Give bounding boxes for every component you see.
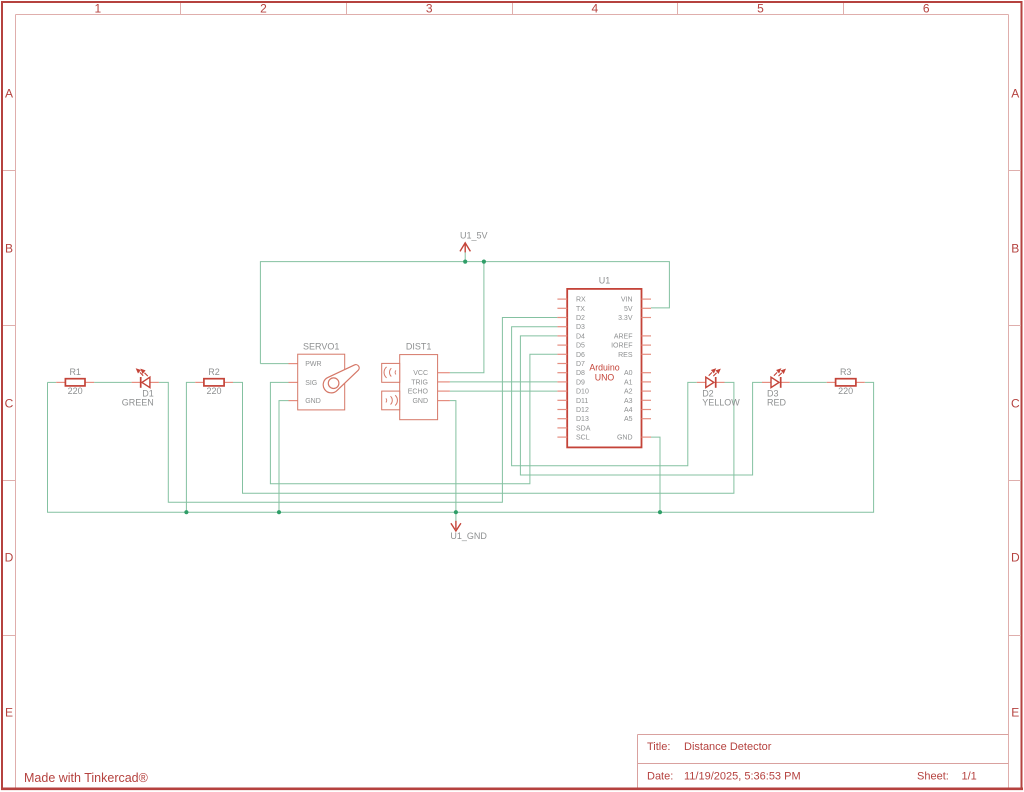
resistor R2 [204, 367, 224, 396]
svg-text:U1_GND: U1_GND [450, 531, 487, 541]
LED D2 YELLOW [702, 369, 740, 408]
svg-text:AREF: AREF [614, 333, 633, 340]
wire U1 D6 to servo SIG [270, 354, 557, 483]
svg-text:D9: D9 [576, 379, 585, 386]
pin stub LED D2 right [716, 381, 725, 383]
svg-text:U1_5V: U1_5V [460, 230, 488, 240]
pin stub R3 left [827, 381, 836, 383]
svg-text:A1: A1 [624, 379, 633, 386]
DIST1 transmitter box [382, 363, 400, 382]
svg-text:SCL: SCL [576, 435, 590, 442]
pin stub R1 right [85, 381, 94, 383]
wire R2 to LED D2 [233, 382, 734, 493]
svg-text:Title:: Title: [647, 741, 670, 753]
wire GND bus to R1 [48, 381, 57, 383]
node GND symbol junction [454, 510, 458, 514]
svg-text:TRIG: TRIG [411, 379, 428, 386]
svg-text:RED: RED [767, 398, 787, 408]
Arduino U1 [567, 275, 641, 447]
wire LED D3 to R3 [790, 381, 827, 383]
pin stub R2 right [224, 381, 233, 383]
svg-text:RX: RX [576, 297, 586, 304]
pin stub LED D2 left [697, 381, 706, 383]
svg-text:A: A [1011, 86, 1019, 100]
node 5V arrow junction [463, 260, 467, 264]
svg-text:GREEN: GREEN [122, 398, 154, 408]
svg-text:Distance Detector: Distance Detector [684, 741, 772, 753]
ultrasonic sensor DIST1 [382, 342, 438, 420]
svg-text:D8: D8 [576, 370, 585, 377]
svg-text:E: E [1011, 705, 1019, 719]
svg-text:D4: D4 [576, 333, 585, 340]
LED D3 RED [767, 369, 787, 408]
resistor R3 [836, 367, 856, 396]
pin stub DIST TRIG [438, 381, 450, 383]
svg-text:Sheet:: Sheet: [917, 771, 949, 783]
svg-text:2: 2 [260, 2, 267, 16]
svg-text:3.3V: 3.3V [618, 315, 633, 322]
U1 left pin labels [576, 297, 591, 442]
svg-text:R1: R1 [69, 367, 81, 377]
svg-text:5: 5 [757, 2, 764, 16]
svg-text:C: C [1011, 396, 1020, 410]
svg-text:D7: D7 [576, 361, 585, 368]
svg-text:Made with Tinkercad®: Made with Tinkercad® [24, 771, 149, 785]
svg-text:D2: D2 [576, 315, 585, 322]
wire servo GND to GND bus [279, 401, 289, 513]
power symbol U1_5V [460, 230, 488, 252]
svg-text:6: 6 [923, 2, 930, 16]
svg-text:VCC: VCC [413, 370, 428, 377]
wire U1 D3 to LED D2 [512, 327, 697, 466]
svg-text:YELLOW: YELLOW [702, 398, 740, 408]
pin stub LED D3 right [781, 381, 790, 383]
svg-text:D: D [5, 550, 14, 564]
svg-text:220: 220 [206, 386, 221, 396]
U1 right pin stubs [642, 299, 652, 437]
title block text [647, 741, 977, 782]
svg-text:A0: A0 [624, 370, 633, 377]
svg-text:1: 1 [94, 2, 101, 16]
node 5V VCC junction [482, 260, 486, 264]
wire 5V bus to DIST VCC [450, 262, 484, 373]
svg-text:U1: U1 [599, 275, 611, 285]
svg-text:220: 220 [838, 386, 853, 396]
wire DIST TRIG to U1 D9 [450, 381, 558, 383]
wire 5V bus to servo PWR [260, 363, 288, 365]
svg-text:R3: R3 [840, 367, 852, 377]
svg-text:GND: GND [305, 398, 321, 405]
pin stub R3 right [856, 381, 865, 383]
svg-text:3: 3 [426, 2, 433, 16]
wire 5V bus [260, 262, 669, 364]
svg-text:A: A [5, 86, 13, 100]
resistor R1 [65, 367, 85, 396]
node GND U1 junction [658, 510, 662, 514]
U1 left pin stubs [557, 299, 567, 437]
svg-text:B: B [5, 241, 13, 255]
svg-text:SERVO1: SERVO1 [303, 342, 339, 352]
svg-text:D6: D6 [576, 352, 585, 359]
svg-text:Arduino: Arduino [589, 363, 619, 373]
frame row letters [5, 86, 1020, 719]
LED D1 GREEN1 [122, 369, 154, 408]
title block [638, 735, 1009, 788]
pin stub D1 right [150, 381, 159, 383]
svg-text:4: 4 [591, 2, 598, 16]
pin stub LED D3 left [762, 381, 771, 383]
frame column ticks [181, 3, 844, 15]
svg-text:ECHO: ECHO [408, 389, 429, 396]
svg-text:SIG: SIG [305, 380, 317, 387]
svg-text:11/19/2025, 5:36:53 PM: 11/19/2025, 5:36:53 PM [684, 771, 801, 783]
wire U1 D4 to LED D3 [520, 336, 762, 475]
pin stub R1 left [56, 381, 65, 383]
wire D1 to U1 D2 [159, 318, 558, 503]
svg-text:5V: 5V [624, 306, 633, 313]
wire R1 to D1 [94, 381, 132, 383]
svg-text:B: B [1011, 241, 1019, 255]
wire DIST ECHO to U1 D10 [450, 390, 558, 392]
U1 right pin labels [611, 297, 633, 442]
svg-text:R2: R2 [208, 367, 220, 377]
svg-text:E: E [5, 705, 13, 719]
servo SERVO1 [298, 342, 359, 410]
pin stub servo SIG [289, 381, 298, 383]
svg-text:A2: A2 [624, 389, 633, 396]
svg-text:Date:: Date: [647, 771, 673, 783]
svg-text:D10: D10 [576, 389, 589, 396]
svg-text:RES: RES [618, 352, 633, 359]
wire GND bus [48, 382, 874, 512]
node GND servo junction [277, 510, 281, 514]
wire R2 left to GND bus [186, 382, 195, 512]
svg-text:DIST1: DIST1 [406, 342, 432, 352]
svg-text:1/1: 1/1 [962, 771, 977, 783]
ground symbol U1_GND [450, 521, 487, 541]
pin stub servo GND [289, 400, 298, 402]
svg-text:D11: D11 [576, 398, 588, 405]
DIST1 receiver box [382, 391, 400, 410]
pin stub DIST ECHO [438, 390, 450, 392]
svg-text:D: D [1011, 550, 1020, 564]
svg-text:SDA: SDA [576, 425, 591, 432]
wire 5V arrow stem [464, 252, 466, 261]
svg-text:D5: D5 [576, 343, 585, 350]
svg-text:TX: TX [576, 306, 585, 313]
svg-text:PWR: PWR [305, 361, 321, 368]
frame column numbers [94, 2, 929, 16]
servo horn [323, 365, 359, 393]
svg-text:D12: D12 [576, 407, 589, 414]
svg-text:UNO: UNO [595, 373, 615, 383]
pin stub D1 left [132, 381, 141, 383]
svg-text:GND: GND [617, 435, 633, 442]
svg-text:A3: A3 [624, 398, 633, 405]
svg-text:A4: A4 [624, 407, 633, 414]
pin stub servo PWR [289, 363, 298, 365]
wire DIST GND to GND bus [450, 401, 456, 513]
svg-text:D13: D13 [576, 416, 589, 423]
svg-text:C: C [5, 396, 14, 410]
svg-text:IOREF: IOREF [611, 343, 632, 350]
node GND R2 junction [184, 510, 188, 514]
svg-text:220: 220 [68, 386, 83, 396]
svg-text:A5: A5 [624, 416, 633, 423]
pin stub DIST GND [438, 400, 450, 402]
pin stub DIST VCC [438, 372, 450, 374]
svg-text:VIN: VIN [621, 297, 633, 304]
wire GND symbol stem [455, 512, 457, 521]
frame row ticks [3, 171, 1021, 636]
pin stub R2 left [195, 381, 204, 383]
wire U1 GND to GND bus [651, 437, 660, 512]
svg-text:D3: D3 [576, 324, 585, 331]
svg-text:GND: GND [412, 398, 428, 405]
